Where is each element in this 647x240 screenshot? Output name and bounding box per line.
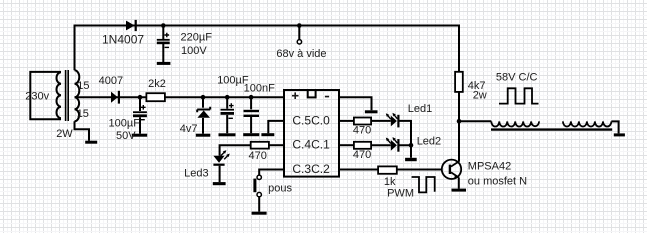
svg-text:230v: 230v <box>25 91 49 103</box>
svg-text:100µF: 100µF <box>109 117 141 129</box>
svg-text:470: 470 <box>353 124 371 136</box>
svg-text:MPSA42: MPSA42 <box>468 161 511 173</box>
svg-text:1k: 1k <box>384 176 396 188</box>
svg-text:15: 15 <box>77 108 89 120</box>
svg-text:68v à vide: 68v à vide <box>276 48 326 60</box>
svg-text:2k2: 2k2 <box>148 78 166 90</box>
svg-text:2W: 2W <box>56 128 73 140</box>
svg-text:C.3C.2: C.3C.2 <box>292 162 330 176</box>
svg-text:C.4C.1: C.4C.1 <box>292 138 330 152</box>
svg-text:100V: 100V <box>181 45 207 57</box>
svg-text:1N4007: 1N4007 <box>102 32 144 46</box>
svg-text:470: 470 <box>353 149 371 161</box>
svg-text:pous: pous <box>268 182 292 194</box>
svg-text:Led3: Led3 <box>184 167 208 179</box>
svg-text:Led2: Led2 <box>417 136 441 148</box>
svg-text:2w: 2w <box>473 90 487 102</box>
svg-text:50V: 50V <box>116 130 136 142</box>
svg-text:220µF: 220µF <box>181 32 213 44</box>
svg-text:4v7: 4v7 <box>180 123 198 135</box>
svg-text:58V C/C: 58V C/C <box>496 71 538 83</box>
svg-text:15: 15 <box>77 80 89 92</box>
svg-text:ou mosfet N: ou mosfet N <box>468 175 527 187</box>
svg-text:C.5C.0: C.5C.0 <box>292 113 330 127</box>
svg-text:4007: 4007 <box>99 75 123 87</box>
svg-text:Led1: Led1 <box>408 103 432 115</box>
svg-text:100nF: 100nF <box>244 83 275 95</box>
svg-text:470: 470 <box>249 150 267 162</box>
svg-text:PWM: PWM <box>387 187 414 199</box>
